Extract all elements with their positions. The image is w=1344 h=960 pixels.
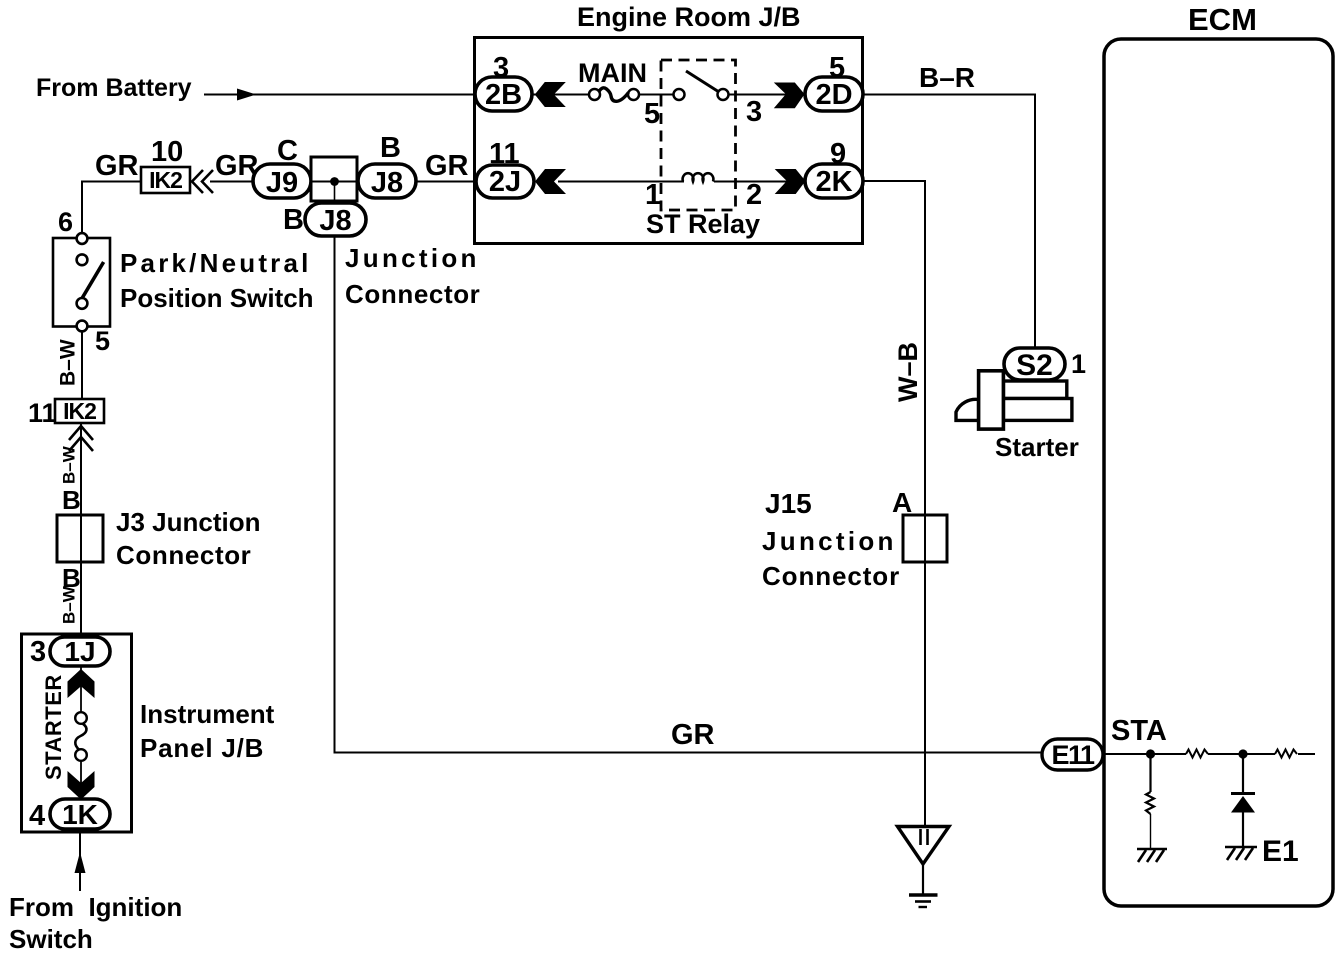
svg-text:1K: 1K [62,799,98,830]
svg-text:W–B: W–B [893,342,923,402]
svg-text:J8: J8 [371,167,403,199]
ECM box [1104,39,1333,906]
svg-text:B: B [380,132,401,164]
diode cathode bar [1231,792,1255,795]
svg-text:GR: GR [95,150,139,182]
ground triangle [898,827,950,865]
arrow into 2K [775,169,806,194]
wire battery feed [204,94,474,96]
wire relay coil to 2K [714,181,805,183]
svg-text:E1: E1 [1262,835,1299,868]
connector J9 [253,164,311,199]
svg-text:3: 3 [746,96,762,128]
connector 1J [50,636,110,667]
svg-text:Park/Neutral: Park/Neutral [120,248,312,278]
ST Relay dashed box [661,60,736,210]
Instrument Panel J/B box [22,634,132,832]
arrow into 2B [535,82,566,107]
connector 2D [805,77,863,111]
svg-text:2K: 2K [815,166,852,198]
wire 2D to starter S2 [863,95,1035,348]
svg-text:J15: J15 [765,488,812,519]
wire relay switch to 2D [729,94,805,96]
svg-text:J8: J8 [319,205,351,237]
svg-text:Switch: Switch [9,924,93,954]
wire switch to lower IK2 (B-W) [81,330,83,399]
connector J8 bottom [305,203,366,237]
connector J8 right [358,164,416,199]
IK2 box lower [55,398,104,424]
svg-text:1J: 1J [64,636,95,667]
svg-text:STARTER: STARTER [41,674,66,780]
fuse STARTER [75,712,87,761]
wire IK2 to Park/Neutral switch [82,182,141,235]
svg-text:Instrument: Instrument [140,699,275,729]
arrow into 2D [774,83,805,109]
wire dot2 down [1242,754,1244,793]
svg-text:MAIN: MAIN [578,58,647,88]
svg-text:5: 5 [95,326,110,356]
svg-text:GR: GR [671,719,715,751]
svg-text:Panel J/B: Panel J/B [140,733,264,763]
wire 2B to fuse [532,94,590,96]
svg-text:J3 Junction: J3 Junction [116,507,260,537]
connector S2 of starter [1004,348,1065,382]
svg-text:3: 3 [30,636,46,668]
arrow up from fuse to 1J [68,669,95,698]
svg-text:Engine Room J/B: Engine Room J/B [577,2,801,32]
svg-text:2D: 2D [815,79,852,111]
wire lower IK2 down to 1J [80,423,82,640]
ground stem and earth bars [909,864,938,907]
svg-text:A: A [892,487,912,518]
svg-text:STA: STA [1111,715,1167,747]
starter motor icon [956,371,1072,429]
svg-text:B–W: B–W [60,585,79,624]
svg-text:S2: S2 [1016,349,1053,382]
wire fuse to relay switch [639,94,674,96]
chevrons left of IK2 [192,170,213,193]
wire 1K to ignition switch [79,829,81,891]
svg-text:1: 1 [645,179,661,211]
arrow down from fuse to 1K [68,771,95,800]
connector 2K [805,164,863,198]
svg-text:5: 5 [644,98,660,130]
wire STA inside ECM [1104,753,1315,755]
Park/Neutral switch contacts [77,233,104,331]
svg-text:Connector: Connector [116,540,251,570]
resistor vertical [1146,792,1154,814]
svg-text:2B: 2B [485,79,522,111]
diode [1231,796,1255,813]
junction connector square [311,157,357,201]
svg-text:J9: J9 [266,167,298,199]
wire 2K to ground triangle (W-B) [863,181,925,827]
svg-text:From Ignition: From Ignition [9,892,182,922]
wire long GR run: junction square to E11 [335,182,1044,753]
chevrons below lower IK2 [69,426,93,451]
svg-text:From Battery: From Battery [36,74,192,102]
resistor horizontal 1 [1186,750,1208,758]
svg-text:2: 2 [746,179,762,211]
connector 2J [476,165,534,198]
IK2 box upper [141,167,190,193]
junction dot 1 [1146,749,1155,758]
relay coil [683,173,714,181]
wire fuse to 1K [80,761,82,800]
svg-text:Position Switch: Position Switch [120,283,314,313]
svg-text:4: 4 [29,800,45,832]
svg-text:B–W: B–W [60,445,79,484]
junction dot 2 [1238,749,1247,758]
svg-text:1: 1 [1071,349,1086,379]
resistor horizontal 2 [1275,750,1297,758]
Park/Neutral Position Switch box [53,238,110,327]
arrow into 2J [535,169,566,194]
svg-text:IK2: IK2 [63,398,96,424]
svg-text:B–R: B–R [919,62,975,93]
svg-text:ST Relay: ST Relay [646,209,760,239]
svg-text:10: 10 [151,136,183,168]
svg-text:Connector: Connector [345,279,480,309]
wire 2J to relay coil [558,181,684,183]
wire IK2 chevrons to J9 (GR) [210,181,254,183]
arrowhead on battery feed [237,89,256,101]
svg-text:B: B [283,204,304,236]
svg-text:ECM: ECM [1188,2,1257,37]
ground 1 [1137,849,1167,862]
svg-text:11: 11 [28,398,57,428]
wire diode to ground 2 [1242,812,1244,846]
wire resistor to ground 1 [1150,814,1152,849]
connector E11 [1042,739,1103,770]
svg-text:IK2: IK2 [149,167,182,193]
connector 2B [475,77,532,111]
wire 1J to fuse [80,666,82,712]
svg-text:Connector: Connector [762,561,900,591]
svg-text:B: B [62,485,81,515]
J3 junction connector square [57,515,103,562]
svg-text:E11: E11 [1051,740,1095,770]
svg-text:B–W: B–W [57,339,80,386]
ground 2 [1225,847,1257,860]
arrowhead from ignition [75,852,86,873]
fuse MAIN [589,88,639,101]
svg-text:Starter: Starter [995,432,1079,462]
wire dot1 down [1149,754,1151,792]
Engine Room J/B box [475,38,863,244]
svg-text:2J: 2J [489,166,521,198]
connector 1K [50,799,110,830]
svg-text:Junction: Junction [762,526,897,556]
relay switch [674,71,729,100]
wire J8 to 2J (GR) [416,181,476,183]
svg-text:6: 6 [58,207,73,237]
J15 junction connector square [903,515,947,562]
svg-text:Junction: Junction [345,243,480,273]
svg-text:GR: GR [425,150,469,182]
